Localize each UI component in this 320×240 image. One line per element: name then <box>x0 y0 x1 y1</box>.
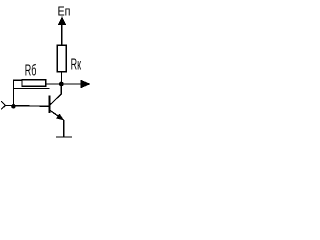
resistor Rк <box>57 45 66 72</box>
resistor Rб <box>22 80 46 86</box>
transistor VT1 emitter lead <box>50 111 63 120</box>
svg-text:Rк: Rк <box>71 57 82 74</box>
node collector junction dot <box>59 82 64 87</box>
output arrow <box>80 80 90 89</box>
svg-text:Rб: Rб <box>25 62 37 79</box>
transistor VT1 collector lead <box>50 86 61 105</box>
wire input to base <box>6 104 49 107</box>
input terminal chevron <box>1 101 5 109</box>
svg-text:Еп: Еп <box>58 5 71 19</box>
node base junction dot <box>11 104 16 109</box>
wire collector node to output arrow <box>61 83 80 85</box>
wire Rк bottom to collector node <box>61 72 63 84</box>
wire emitter to ground <box>63 120 65 137</box>
wire corner base node up to Rб left <box>14 80 23 106</box>
transistor VT1 base bar <box>49 96 51 114</box>
ground <box>56 136 72 138</box>
wire stub under Rб <box>14 87 50 89</box>
supply arrow to Еп <box>58 16 67 25</box>
wire supply arrow to Rк <box>61 24 63 46</box>
wire Rб right to collector node <box>46 83 62 85</box>
transistor VT1 emitter arrowhead <box>56 113 64 120</box>
